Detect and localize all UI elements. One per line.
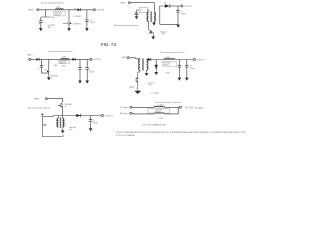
wire rail: [151, 59, 193, 61]
IC U2 box: [139, 7, 147, 12]
svg-text:100uF: 100uF: [190, 68, 195, 70]
svg-text:NCP1402: NCP1402: [155, 110, 162, 112]
capacitor C7: [86, 68, 89, 70]
terminal OUTPUT: [193, 58, 195, 60]
diode D7: [76, 114, 80, 117]
transformer T2 primary: [139, 59, 140, 70]
svg-text:Vdd: Vdd: [54, 65, 57, 67]
wire secondary top rail: [147, 58, 148, 61]
svg-text:SN50T1: SN50T1: [55, 14, 61, 16]
svg-text:L-NN: L-NN: [61, 66, 66, 68]
svg-text:Recommended inductor: Recommended inductor: [41, 2, 64, 5]
svg-text:BATT: BATT: [121, 2, 127, 5]
svg-text:Recommended inductor: Recommended inductor: [28, 106, 51, 109]
svg-text:D? 1N5817: D? 1N5817: [73, 16, 82, 18]
wire switch drop: [48, 59, 50, 77]
ground: [151, 36, 155, 39]
svg-text:AC Input: AC Input: [120, 112, 129, 115]
wire box to cap: [137, 10, 140, 16]
wire secondary top: [62, 116, 64, 119]
wire batt: [48, 99, 63, 103]
terminal BATT: [128, 2, 130, 4]
svg-text:L-NN: L-NN: [165, 72, 170, 74]
wire switch drop: [68, 10, 70, 28]
wire input drop: [41, 10, 50, 28]
transformer T3 secondary: [63, 118, 64, 127]
svg-text:100uF: 100uF: [93, 123, 98, 125]
wire top path: [132, 106, 179, 108]
transistor Q3: [47, 70, 49, 72]
wire secondary bottom: [146, 70, 148, 73]
wire q to rail: [62, 106, 64, 115]
svg-text:C?: C?: [38, 24, 40, 26]
wire gate link: [63, 22, 67, 24]
wire input: [31, 58, 36, 60]
svg-text:CIRCUIT DIAGRAM SHOWN WITH A 3: CIRCUIT DIAGRAM SHOWN WITH A 3 WINDING B…: [116, 131, 247, 134]
IC U3 box: [59, 60, 70, 63]
svg-text:FET: FET: [148, 84, 151, 86]
inductor L5: [154, 113, 164, 114]
terminal BATT: [45, 98, 47, 100]
wire box to primary: [147, 10, 148, 12]
capacitor C2: [85, 20, 88, 22]
wire main rail: [40, 58, 91, 60]
svg-text:MOSFET: MOSFET: [65, 104, 72, 106]
svg-text:FIG. #3: FIG. #3: [101, 42, 117, 47]
ground: [78, 81, 82, 84]
ground: [176, 25, 180, 28]
svg-text:AC/DC output: AC/DC output: [185, 106, 204, 109]
terminal input: [127, 57, 129, 59]
wire secondary bottom: [62, 127, 64, 130]
capacitor marks on left loop: [43, 124, 46, 126]
transistor Q4: [136, 77, 138, 85]
ground: [85, 28, 89, 31]
svg-text:DC Input: DC Input: [120, 106, 129, 109]
wire cap drop 2: [79, 59, 81, 80]
wire left loop: [42, 116, 63, 137]
wire primary bottom: [148, 21, 150, 29]
capacitor C1: [39, 21, 42, 23]
transistor Q5: [58, 103, 63, 108]
svg-text:IC?: IC?: [140, 10, 143, 12]
wire cap drop 1: [178, 60, 180, 78]
inductor L1: [55, 9, 63, 10]
svg-text:D?: D?: [74, 8, 76, 10]
transformer tap ticks: [56, 121, 65, 126]
wire bottom path: [132, 107, 178, 114]
svg-text:+: +: [82, 70, 83, 72]
wire rail to terminal: [170, 5, 180, 7]
diode D1: [78, 8, 81, 11]
ground: [154, 72, 158, 75]
svg-text:100uF: 100uF: [89, 71, 94, 73]
transformer T1 primary: [147, 12, 148, 21]
svg-text:- ve supply: - ve supply: [150, 92, 158, 94]
inductor L3: [164, 58, 175, 59]
svg-text:1uF: 1uF: [44, 70, 47, 72]
transformer T2 secondary: [147, 59, 148, 70]
capacitor C5: [40, 66, 43, 68]
node polarity arrow: [41, 114, 43, 117]
wire batt top: [130, 3, 154, 12]
transformer T1 secondary: [154, 12, 155, 21]
transformer T1 core: [150, 11, 153, 22]
terminal BATT: [29, 58, 31, 60]
svg-text:100uF: 100uF: [181, 14, 186, 16]
svg-text:Fig 4 TRL COMBINER UNIT: Fig 4 TRL COMBINER UNIT: [142, 125, 167, 127]
svg-text:STYLE OF CHARGE: STYLE OF CHARGE: [116, 134, 135, 137]
terminal OUTPUT: [101, 114, 103, 116]
svg-text:q: q: [65, 106, 66, 108]
wire cap drop: [42, 59, 49, 73]
ground under transformer: [61, 130, 65, 133]
ground: [145, 73, 149, 76]
wire out cap drop: [90, 116, 92, 129]
svg-text:back: back: [69, 129, 73, 131]
svg-text:SN50T1: SN50T1: [163, 64, 169, 66]
capacitor C3: [135, 13, 138, 15]
ground: [85, 81, 89, 84]
transistor Q2: [149, 30, 151, 34]
terminal INPUT: [37, 9, 39, 11]
ground: [178, 78, 182, 81]
svg-text:L-NN: L-NN: [159, 118, 164, 120]
ground: [89, 128, 93, 131]
svg-text:Recommended inductor: Recommended inductor: [48, 50, 73, 53]
transformer T2 core: [142, 58, 145, 70]
diode D4: [72, 58, 75, 61]
svg-text:100uF: 100uF: [90, 22, 95, 24]
wire input top: [129, 58, 140, 60]
svg-text:SN50T1: SN50T1: [60, 63, 66, 65]
IC U1 box: [54, 11, 66, 16]
terminal OUTPUT: [90, 58, 92, 60]
IC U4 box: [162, 61, 176, 66]
wire output drop: [86, 10, 88, 28]
terminal output: [179, 106, 181, 108]
svg-text:Recommended inductor: Recommended inductor: [161, 51, 185, 54]
svg-text:D?: D?: [164, 2, 166, 4]
svg-text:BATT: BATT: [28, 53, 34, 56]
wire top rail: [39, 9, 93, 11]
svg-text:INPUT: INPUT: [28, 10, 35, 12]
capacitor C4: [176, 11, 179, 13]
wire rail stub left: [160, 6, 165, 24]
wire primary top: [57, 116, 59, 119]
ground solid: [135, 85, 141, 94]
svg-text:MOSFET q: MOSFET q: [73, 23, 81, 25]
IC U5 box: [148, 109, 169, 114]
ground: [135, 16, 139, 19]
label gate marks: [129, 86, 134, 88]
inductor L4: [154, 106, 164, 107]
svg-text:SN?: SN?: [48, 27, 51, 29]
svg-text:OUTPUT: OUTPUT: [96, 10, 105, 12]
capacitor C8: [178, 66, 181, 68]
ground: [67, 28, 71, 31]
svg-text:SN50T1: SN50T1: [155, 112, 161, 114]
svg-text:OUTPUT: OUTPUT: [196, 59, 205, 61]
svg-text:L-NN: L-NN: [50, 17, 55, 19]
svg-text:C?: C?: [37, 69, 39, 71]
svg-text:OUTPUT: OUTPUT: [105, 115, 114, 117]
transformer T3 core: [59, 117, 62, 128]
diode D3: [36, 58, 39, 61]
svg-text:OUTPUT: OUTPUT: [184, 6, 193, 8]
wire cap drop 3: [86, 59, 88, 80]
ground: [47, 77, 51, 80]
wire zener drop: [155, 60, 157, 65]
wire rail: [53, 115, 101, 117]
svg-text:OUTPUT: OUTPUT: [93, 59, 102, 61]
svg-text:BATT: BATT: [35, 98, 41, 101]
diode D6 vertical: [155, 65, 158, 72]
transformer T3 primary: [57, 118, 58, 127]
capacitor C9: [185, 66, 188, 68]
wire left link: [42, 115, 53, 117]
diode D5: [148, 58, 151, 61]
wire primary bottom: [138, 70, 140, 77]
terminal OUTPUT: [93, 9, 95, 11]
transistor Q1: [70, 22, 72, 24]
ground: [152, 23, 156, 26]
wire output cap drop: [160, 6, 178, 24]
inductor L2: [61, 58, 69, 59]
svg-text:+: +: [133, 12, 134, 14]
svg-text:FET: FET: [162, 33, 165, 35]
terminal AC: [130, 112, 132, 114]
capacitor C10: [89, 120, 92, 122]
capacitor C6: [78, 68, 81, 70]
diode D2: [165, 4, 170, 7]
terminal OUTPUT: [181, 5, 183, 7]
svg-text:Recommended transformer: Recommended transformer: [114, 24, 139, 27]
ground: [39, 28, 43, 31]
svg-text:L-NN: L-NN: [165, 57, 170, 59]
svg-text:q: q: [51, 77, 52, 79]
wire secondary bottom to ground: [153, 21, 155, 22]
terminal DC: [130, 106, 132, 108]
svg-text:MOSFET: MOSFET: [51, 75, 58, 77]
wire Q2 source: [152, 32, 154, 36]
ground: [185, 78, 189, 81]
wire cap drop 2: [186, 60, 188, 78]
